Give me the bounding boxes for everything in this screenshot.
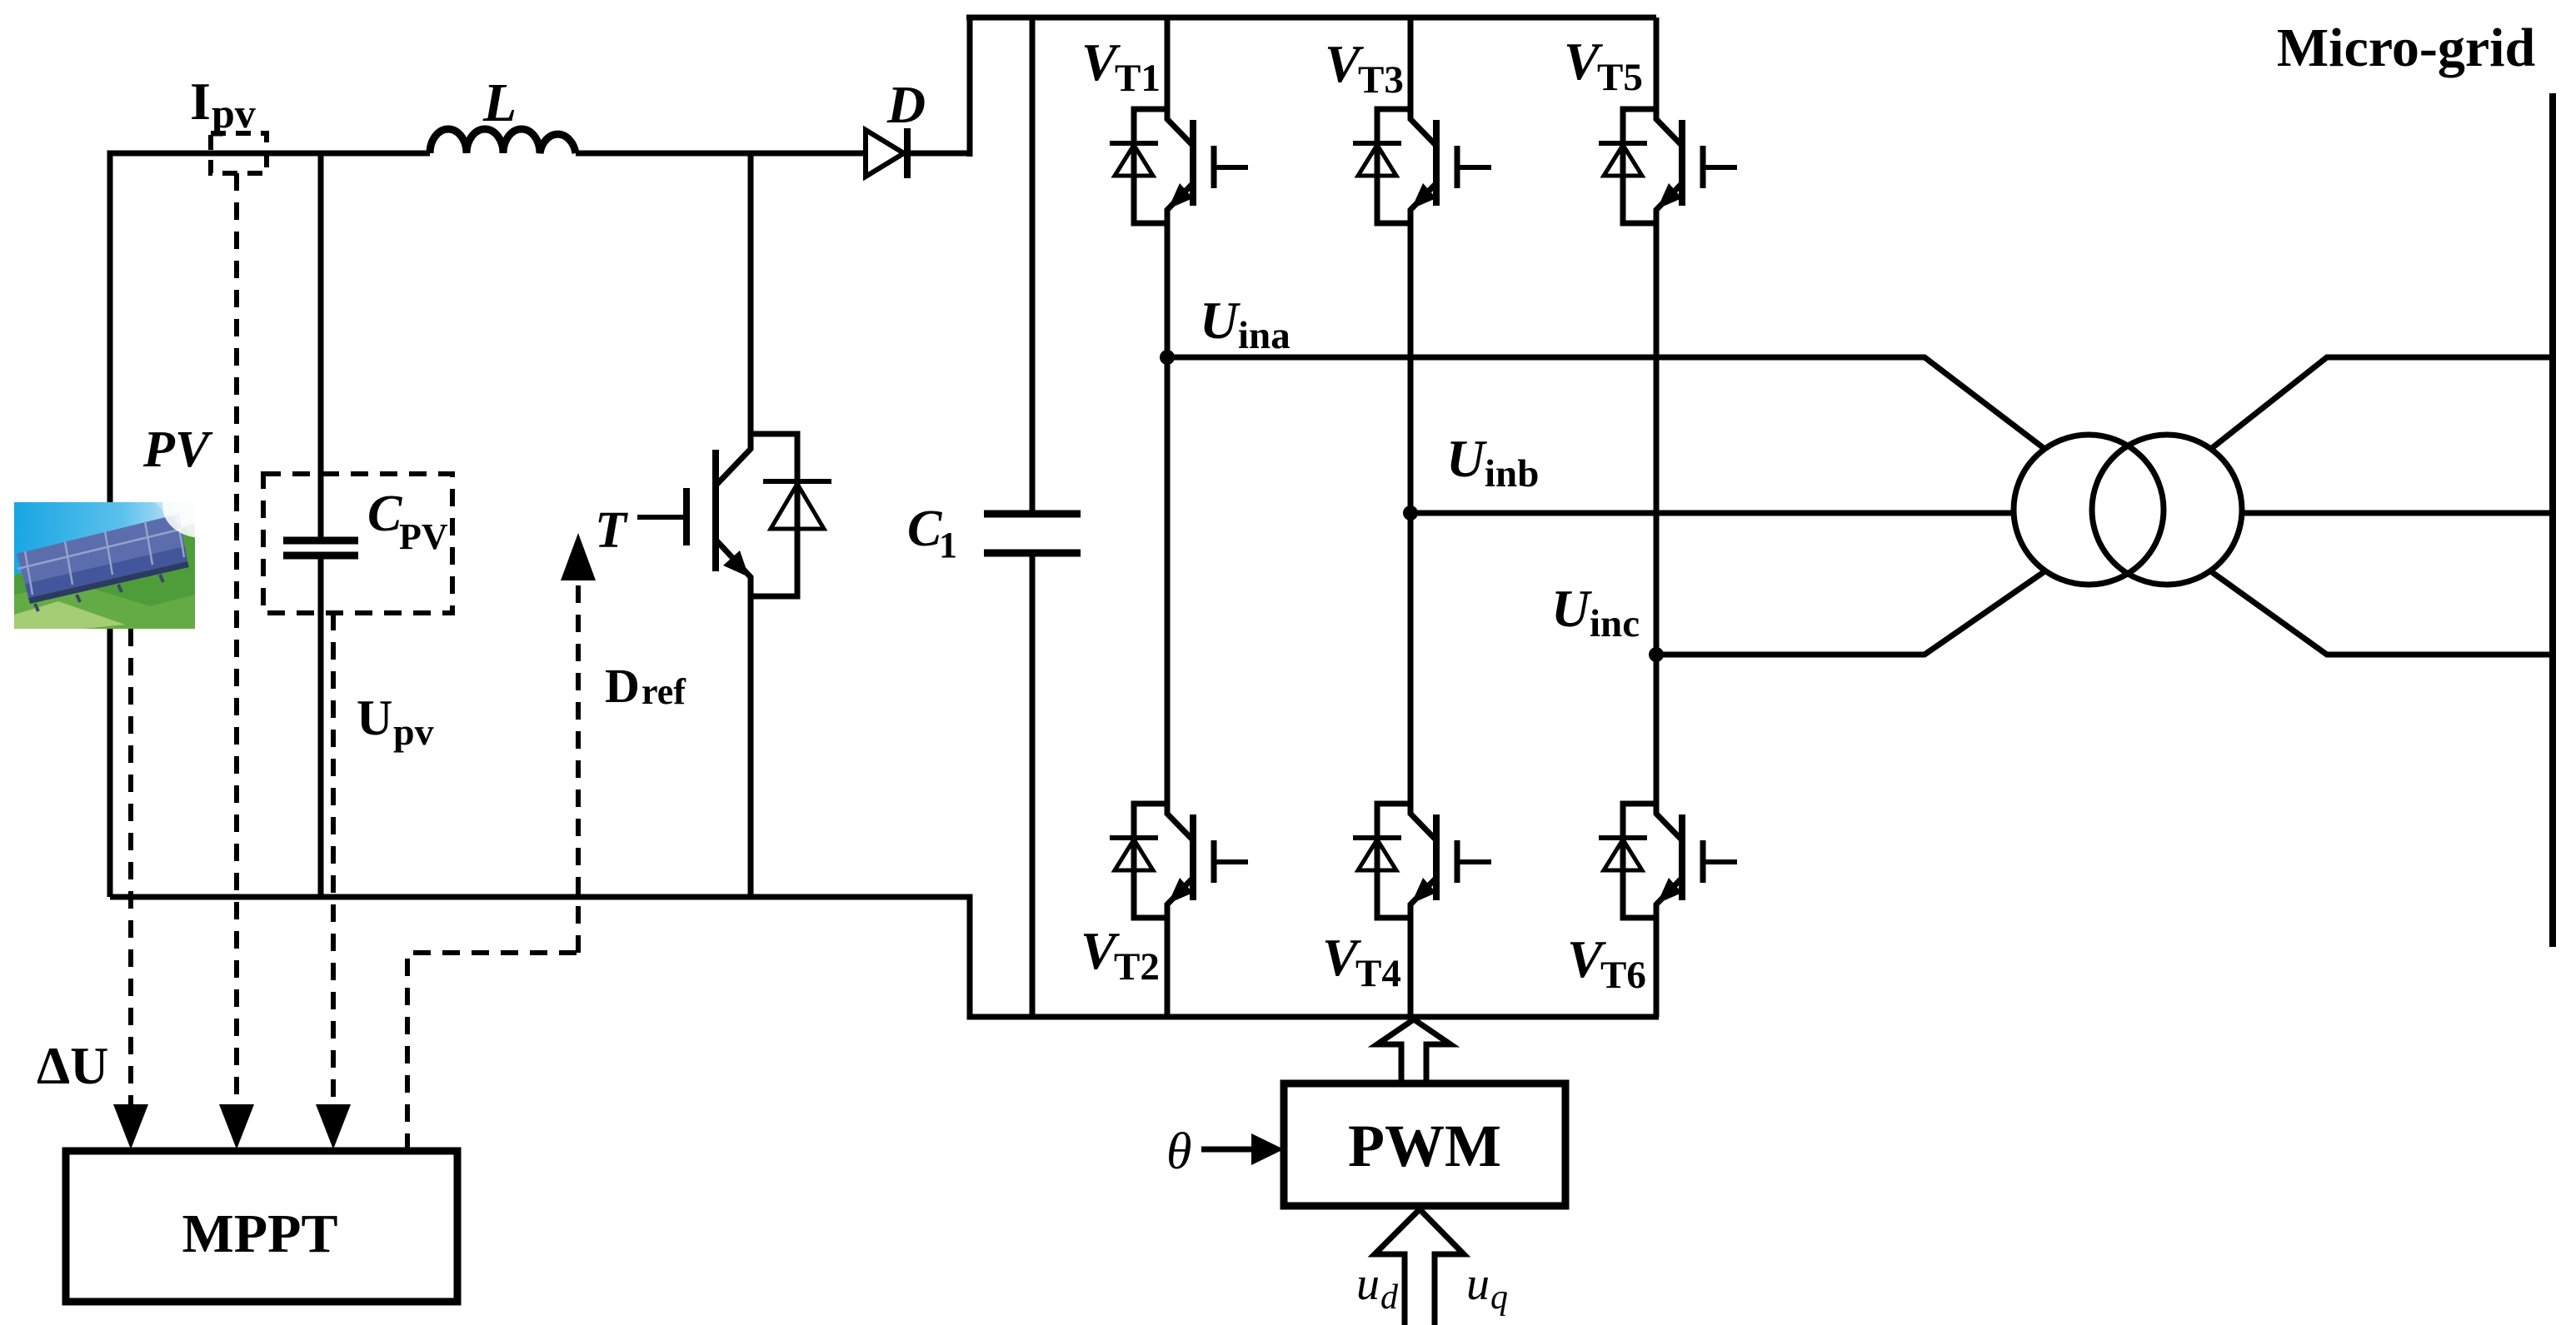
node Uinc bbox=[1649, 647, 1664, 662]
label uq bbox=[1466, 1258, 1508, 1317]
label Uina bbox=[1200, 291, 1290, 357]
label Uinc bbox=[1551, 579, 1640, 645]
capacitor CPV bbox=[283, 153, 358, 897]
svg-text:PWM: PWM bbox=[1348, 1113, 1501, 1179]
transistor VT3 bbox=[1325, 34, 1491, 228]
svg-text:C: C bbox=[367, 486, 402, 542]
transistor VT6 bbox=[1567, 799, 1737, 997]
label Ipv bbox=[190, 72, 256, 137]
svg-text:C: C bbox=[907, 501, 942, 557]
transistor T bbox=[637, 428, 831, 603]
wire L to diode bbox=[576, 151, 866, 157]
wire boost bottom rail and step to inverter rail bbox=[110, 897, 1659, 1017]
svg-text:PV: PV bbox=[399, 516, 448, 557]
svg-text:U: U bbox=[1551, 579, 1592, 638]
svg-text:ref: ref bbox=[642, 671, 686, 712]
wire VT3 leg bbox=[1408, 17, 1414, 802]
transformer primary circle bbox=[2014, 435, 2164, 585]
label ud bbox=[1356, 1258, 1399, 1317]
svg-text:T4: T4 bbox=[1355, 952, 1401, 995]
svg-text:T: T bbox=[595, 502, 628, 559]
svg-text:MPPT: MPPT bbox=[182, 1203, 338, 1264]
svg-text:1: 1 bbox=[939, 525, 957, 565]
arrowhead Dref bbox=[561, 533, 596, 580]
svg-text:T3: T3 bbox=[1358, 58, 1404, 102]
dashed wire Upv sense bbox=[331, 613, 336, 1108]
wire transformer to grid bottom bbox=[2212, 572, 2553, 655]
node Uina bbox=[1160, 350, 1175, 365]
inductor L bbox=[430, 129, 576, 153]
svg-text:D: D bbox=[605, 659, 640, 713]
block PWM bbox=[1284, 1083, 1565, 1206]
hollow arrow PWM to bridge bbox=[1377, 1019, 1450, 1083]
dashed wire Dref from MPPT bbox=[407, 570, 578, 1151]
capacitor C1 bbox=[984, 17, 1081, 1017]
dashed box CPV bbox=[263, 474, 452, 613]
svg-text:U: U bbox=[357, 690, 392, 745]
svg-text:d: d bbox=[1380, 1278, 1399, 1317]
wire VT4 emitter to rail bbox=[1408, 919, 1414, 1017]
transistor VT2 bbox=[1081, 799, 1248, 989]
dashed wire dU sense bbox=[128, 629, 133, 1108]
transistor VT4 bbox=[1322, 799, 1491, 995]
svg-text:T2: T2 bbox=[1114, 945, 1160, 989]
svg-text:U: U bbox=[1446, 429, 1487, 488]
svg-text:pv: pv bbox=[393, 710, 434, 753]
diode D bbox=[866, 128, 907, 178]
wire phase c to transformer bbox=[1656, 572, 2044, 655]
svg-text:PV: PV bbox=[142, 421, 213, 478]
wire PV left vertical and top horizontal bbox=[110, 153, 430, 897]
wire VT6 emitter to rail bbox=[1654, 919, 1660, 1017]
svg-text:q: q bbox=[1490, 1278, 1508, 1317]
svg-text:D: D bbox=[886, 75, 926, 134]
svg-text:u: u bbox=[1356, 1258, 1380, 1310]
svg-text:L: L bbox=[482, 72, 517, 133]
wire diode to top bus riser and top bus bbox=[904, 17, 1656, 157]
label Uinb bbox=[1446, 429, 1539, 496]
svg-text:u: u bbox=[1466, 1258, 1490, 1310]
dashed wire Ipv sense bbox=[234, 173, 239, 1108]
svg-text:I: I bbox=[190, 72, 211, 131]
svg-text:Micro-grid: Micro-grid bbox=[2277, 17, 2535, 78]
wire transformer to grid top bbox=[2212, 357, 2553, 448]
wire VT2 emitter to rail bbox=[1165, 919, 1171, 1017]
svg-text:pv: pv bbox=[212, 90, 256, 137]
svg-text:inb: inb bbox=[1485, 452, 1539, 496]
block MPPT bbox=[66, 1151, 457, 1302]
svg-text:T1: T1 bbox=[1115, 57, 1161, 100]
svg-text:ΔU: ΔU bbox=[37, 1036, 108, 1095]
svg-text:T6: T6 bbox=[1600, 954, 1646, 997]
PV panel photo bbox=[14, 475, 242, 629]
wire phase b to transformer bbox=[1410, 511, 2016, 516]
arrow theta into PWM bbox=[1201, 1133, 1284, 1165]
wire T emitter to boost rail bbox=[748, 601, 754, 897]
wire VT5 leg bbox=[1654, 17, 1660, 802]
wire micro-grid bus bbox=[2549, 93, 2556, 947]
label Upv bbox=[357, 690, 434, 753]
arrowheads into MPPT bbox=[113, 1104, 351, 1149]
svg-text:T5: T5 bbox=[1597, 56, 1643, 99]
svg-text:inc: inc bbox=[1590, 602, 1640, 645]
transistor VT1 bbox=[1081, 32, 1248, 228]
wire phase a to transformer bbox=[1167, 357, 2044, 448]
wire T branch vertical bbox=[748, 151, 754, 430]
svg-text:ina: ina bbox=[1238, 314, 1290, 357]
wire transformer to grid middle bbox=[2239, 511, 2553, 516]
node Uinb bbox=[1403, 506, 1418, 521]
transistor VT5 bbox=[1564, 32, 1737, 228]
label Dref bbox=[605, 659, 686, 713]
transformer secondary circle bbox=[2092, 435, 2242, 585]
svg-text:θ: θ bbox=[1166, 1123, 1191, 1180]
svg-text:U: U bbox=[1200, 291, 1241, 350]
current sensor Ipv dashed box bbox=[211, 133, 267, 173]
wire VT1 leg bbox=[1165, 17, 1171, 802]
hollow arrow ud uq into PWM bbox=[1375, 1209, 1464, 1325]
